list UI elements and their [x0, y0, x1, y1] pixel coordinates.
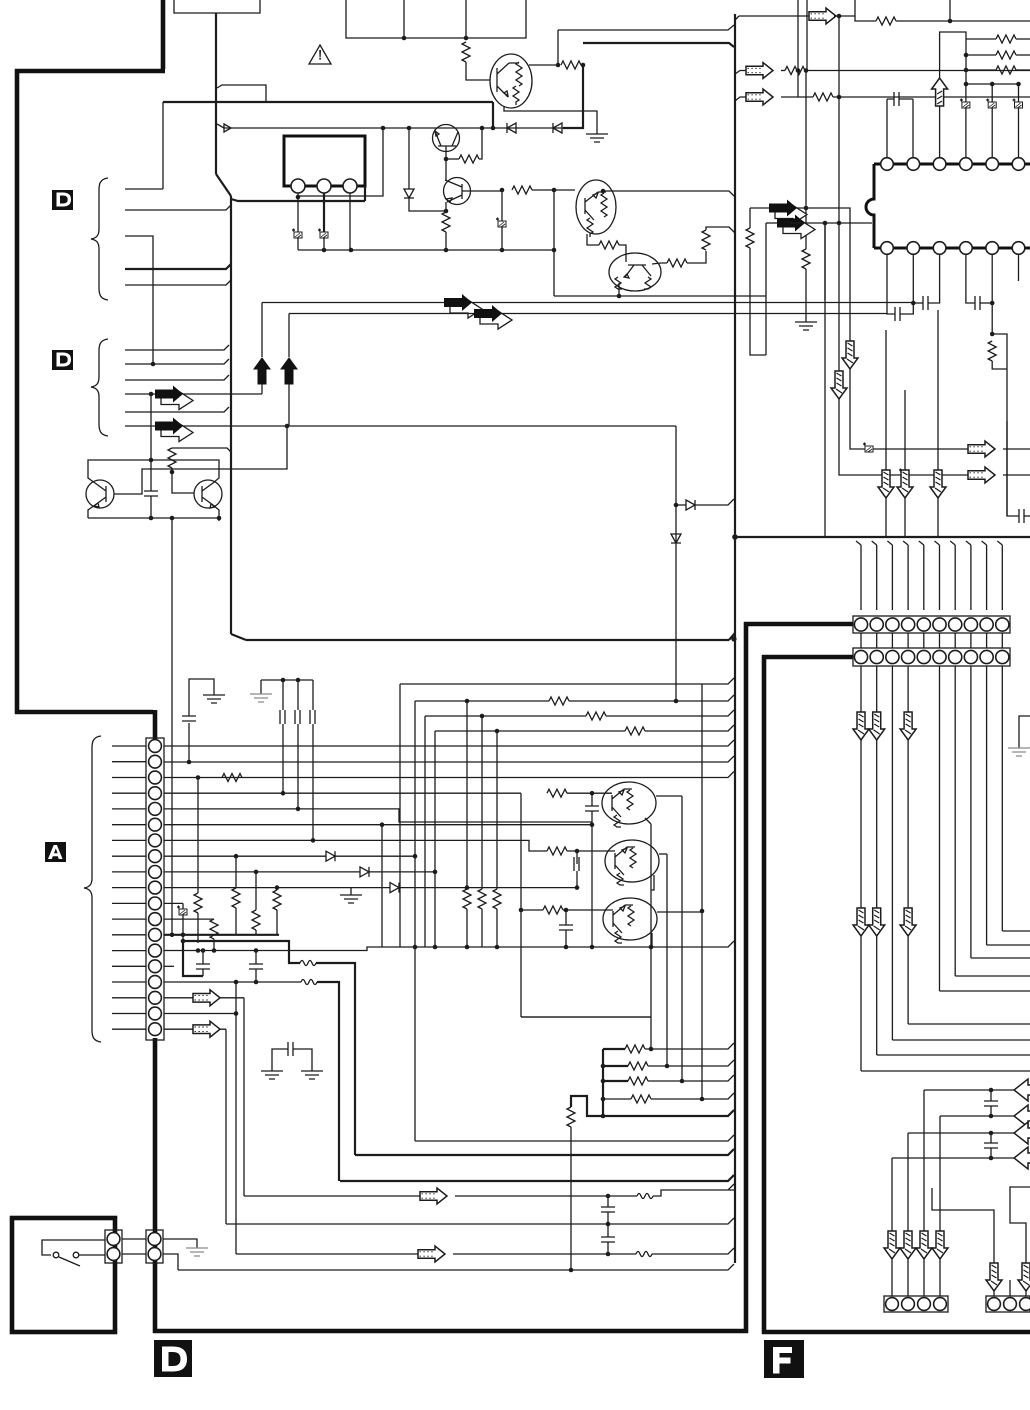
- wire x262 to arrow tip: [261, 303, 263, 358]
- connector S2 body: [146, 1230, 163, 1263]
- arrow up solid 1: [254, 358, 270, 384]
- node junction rail x351: [349, 248, 354, 253]
- wire y684 top: [400, 678, 734, 684]
- vertical x497 with resistor: [496, 731, 498, 889]
- node junction x497 y731: [495, 729, 500, 734]
- wire arrow to pin3: [939, 106, 941, 158]
- resistor R-e2: [442, 212, 450, 232]
- node junction x592 y825: [590, 822, 595, 827]
- bead pin5: [991, 84, 993, 102]
- vertical x283 cap: [282, 680, 284, 710]
- wire x592 continue: [591, 825, 593, 947]
- wire y30 to bus: [558, 25, 734, 30]
- wire resistor to base: [466, 62, 490, 80]
- resistor R-x198: [194, 893, 202, 913]
- coil y1254: [608, 1253, 636, 1255]
- wire S2 pin2 to y1270: [163, 1254, 178, 1270]
- wire x806 low: [805, 269, 807, 322]
- cap y1143: [990, 1133, 992, 1143]
- wire contact2 to pin: [79, 1254, 105, 1256]
- wire x287 down: [114, 426, 287, 494]
- arrow left outline y1090: [1014, 1079, 1030, 1101]
- module pin 1: [291, 179, 305, 193]
- node junction x651 y947: [649, 945, 654, 950]
- wire y1210 to conn F2: [932, 1188, 994, 1263]
- node junction x236 pin16: [234, 980, 239, 985]
- bead pin4: [965, 84, 967, 102]
- node junction x558: [556, 63, 561, 68]
- brace D1: [91, 178, 108, 300]
- wire corner y1040: [892, 1039, 1030, 1041]
- wire R-q4 up: [687, 251, 706, 263]
- wire p19 corner down: [225, 1029, 227, 1224]
- wire pin10 tail: [399, 887, 577, 889]
- arrow hatched up pin3: [932, 78, 948, 106]
- wire y1017 step: [521, 1016, 651, 1018]
- arrow left outline y1133: [1014, 1122, 1030, 1144]
- arrow wires: [886, 310, 938, 537]
- node junction bus/bottom: [731, 636, 736, 641]
- verticals to bottom connector: [892, 1090, 940, 1231]
- wire x198 down: [197, 778, 199, 894]
- wire module pin2 down: [323, 193, 325, 232]
- diode D-left2: [553, 123, 562, 133]
- caps top horizontal: [261, 680, 313, 694]
- wire Q2 base right: [462, 190, 502, 192]
- wire corner x415: [414, 701, 416, 1141]
- node junction x566 y910: [564, 908, 569, 913]
- node junction x466: [464, 36, 469, 41]
- wire x571 down: [570, 1127, 572, 1270]
- wire y97 resistor: [781, 96, 813, 98]
- node junction x203 rail: [201, 948, 206, 953]
- node junction x298 y680: [296, 678, 301, 683]
- node junction x583 y65: [581, 63, 586, 68]
- cap pin2-3: [913, 302, 923, 304]
- node junction x839 y223: [837, 221, 842, 226]
- wire corner y945: [987, 944, 1030, 946]
- node junction x446 y211: [444, 209, 449, 214]
- node junction x435 pin9: [433, 870, 438, 875]
- switch contact 1: [53, 1252, 59, 1258]
- wire pin7: [164, 840, 547, 851]
- node junction x298 pin5: [296, 807, 301, 812]
- IC bottom edge: [874, 247, 1030, 250]
- node junction rail x554: [552, 248, 557, 253]
- node junction x651 y1049: [649, 1047, 654, 1052]
- SECTION: top-left / region B boundary: [163, 0, 766, 642]
- strip2 pins: [854, 650, 867, 663]
- node junction x313 pin7: [311, 838, 316, 843]
- arrow left outline y1116: [1014, 1105, 1030, 1127]
- node junction x806 y208: [804, 206, 809, 211]
- IC top pins: [881, 158, 894, 171]
- wires arrows to connector: [892, 1259, 940, 1296]
- wire D2-4: [125, 393, 262, 395]
- resistor R-q4b: [702, 230, 710, 250]
- thick stub x183 down: [183, 941, 203, 976]
- capacitor C-m2 (polarized): [318, 229, 328, 239]
- coil y1197: [608, 1195, 637, 1197]
- node junction rail x324: [322, 248, 327, 253]
- vertical x577 cap: [576, 851, 578, 864]
- strip2 pin wires down: [861, 666, 1002, 1071]
- interstrip verticals: [861, 633, 1002, 648]
- node junction x283 pin4: [281, 791, 286, 796]
- wire Q-top emitter: [504, 107, 597, 134]
- arrow hatched down x850: [842, 341, 858, 369]
- wire corner x766 down: [765, 223, 767, 355]
- wire x554 down long: [553, 190, 555, 296]
- wire QL1 collector up: [88, 460, 151, 483]
- wire pin5: [164, 809, 592, 822]
- wire resistor up to diode line: [479, 128, 482, 159]
- strip1 pins: [854, 618, 867, 631]
- wire corner x435: [434, 731, 436, 947]
- resistor col x236 from p8: [234, 854, 239, 859]
- thick wire to x355: [316, 963, 355, 1155]
- resistor rows top right: r1: [966, 38, 996, 40]
- connector F1 body: [884, 1296, 948, 1312]
- wire resistor bottom to x1007: [992, 361, 1007, 369]
- wire y1155 thick: [355, 1149, 734, 1155]
- wire module pin1 down: [297, 193, 299, 232]
- wire x950 from top: [949, 0, 951, 21]
- ground caps-row: [250, 694, 272, 702]
- wire corner down x493: [492, 102, 494, 128]
- ground C-mid left: [261, 1071, 283, 1079]
- transistor QL2: [194, 480, 222, 508]
- wire corner x400: [399, 684, 401, 947]
- resistor R-x992: [988, 341, 996, 361]
- wire D1-4: [125, 264, 231, 269]
- wire up-arrow1 stem: [261, 384, 263, 394]
- wire diode line thick tail: [563, 65, 583, 128]
- node junction x382 pin6: [380, 822, 385, 827]
- node junction x992 y303: [990, 301, 995, 306]
- diode D-b2 down: [671, 534, 681, 543]
- arrow hatched down x839: [831, 371, 847, 399]
- transistor QA3: [603, 898, 657, 940]
- capacitor C-mid structure: [272, 1049, 312, 1071]
- wire D2-2: [125, 359, 229, 364]
- wire pin9: [164, 871, 360, 873]
- wire y1270: [178, 1264, 734, 1270]
- vertical x382: [381, 825, 383, 947]
- switch enclosure box: [12, 1218, 115, 1332]
- IC bottom pins: [881, 242, 894, 255]
- wire D1-3: [125, 236, 153, 364]
- resistor R-p3: [222, 774, 242, 782]
- label D (big, bottom): [154, 1340, 192, 1377]
- arrow hatched p17: [193, 990, 220, 1006]
- vertical x676 diode feed: [675, 426, 677, 701]
- wire x383 down to module: [298, 128, 383, 196]
- bead B-y475: [899, 469, 909, 479]
- wire QA1 collector: [656, 795, 682, 797]
- coil L2 on p16: [301, 980, 317, 985]
- node junction x577 pin10: [575, 885, 580, 890]
- wire pin15 stub: [164, 965, 174, 967]
- wire region-B bottom horizontal: [246, 639, 729, 641]
- vertical x839 from y97: [838, 97, 840, 371]
- wire vertical x839 top: [838, 16, 840, 97]
- wire D1-1: [125, 188, 163, 190]
- arrow hatched down F2a: [986, 1263, 1002, 1291]
- wire pin16: [164, 981, 301, 983]
- node junction x806 y70: [804, 68, 809, 73]
- cap x566: [565, 910, 567, 925]
- wire S2 pin1 to ground: [163, 1239, 197, 1248]
- wire x409 down to diode: [408, 128, 410, 189]
- wire x236 down: [235, 982, 237, 1254]
- node junction x415 pin8: [413, 854, 418, 859]
- label D (bracket 2): [52, 350, 73, 370]
- wire D1-1 riser: [162, 102, 164, 189]
- module pin 2: [317, 179, 331, 193]
- rail junction dots: [413, 945, 418, 950]
- node junction x608 y1197: [606, 1194, 611, 1199]
- pin stubs left: [112, 746, 146, 1029]
- wire p17 corner down: [243, 998, 245, 1196]
- wire long horizontal y102: [163, 101, 493, 103]
- region F left border: [762, 655, 767, 1334]
- wire x289 to arrow tip: [288, 314, 290, 358]
- module box (tuner): [284, 136, 365, 186]
- transistor Q1: [433, 125, 460, 152]
- wire y1181 thick: [340, 1175, 734, 1181]
- wire QA3 collector: [657, 911, 702, 913]
- wire y302 long: [262, 302, 913, 304]
- node junction x839 y16: [837, 14, 842, 19]
- module pin 3: [343, 179, 357, 193]
- wire R-x198 to thick node: [197, 913, 199, 943]
- vertical x313 cap: [312, 680, 314, 710]
- node junction x482 y716: [480, 714, 485, 719]
- wire Q3 emitter to R: [587, 234, 599, 245]
- arrow hatched y16: [809, 8, 836, 24]
- arrows hatched down bottom row: [884, 1231, 900, 1259]
- resistor R-collector: [561, 61, 581, 69]
- SECTION: bottom-left switch area: [42, 1230, 208, 1270]
- vertical x298 cap: [297, 680, 299, 710]
- node junction x467 y701: [465, 699, 470, 704]
- wire QL1 emitter down: [88, 505, 95, 518]
- arrow hatched y1254: [418, 1246, 445, 1262]
- wire pin9 tail: [369, 871, 435, 873]
- wire D2-6: [125, 425, 676, 427]
- wire pin13 thick: [164, 934, 234, 936]
- wire x558 riser: [557, 30, 559, 65]
- thick bar y935: [234, 934, 279, 936]
- arrows hatched down above strip: [878, 470, 894, 498]
- arrow solid y302: [444, 294, 482, 318]
- node junction x502: [500, 188, 505, 193]
- cap pin4-5: [975, 296, 980, 310]
- resistor R-q2c: [512, 186, 532, 194]
- diode D-b1: [676, 504, 686, 506]
- wire y449 tail: [1003, 448, 1030, 450]
- node junction x991 y1116: [989, 1114, 994, 1119]
- connector A pins: [149, 740, 162, 1036]
- wire QL2 collector riser: [151, 460, 219, 483]
- wire corner x750 down: [749, 208, 751, 228]
- node junction x219 y521: [217, 516, 222, 521]
- node junction x482: [480, 126, 485, 131]
- wire pin4: [164, 792, 521, 794]
- strip1 body: [853, 616, 1010, 633]
- node junction x172 y474: [170, 470, 175, 475]
- ground tap pin10: [350, 888, 352, 895]
- node junction rail x446: [444, 248, 449, 253]
- wire pin19: [164, 1028, 226, 1030]
- wire D1-5: [125, 280, 231, 285]
- wire y1224: [226, 1218, 734, 1224]
- wire y1197: [244, 1195, 420, 1197]
- vertical x825: [824, 223, 826, 300]
- wire y475 tail: [1003, 474, 1030, 476]
- wire pin2: [164, 756, 734, 762]
- wire R-q4b to bus: [706, 227, 735, 233]
- ground S2: [186, 1248, 208, 1256]
- wire Q4 bottom down: [554, 283, 766, 296]
- wire emitter left: [446, 158, 459, 160]
- cap y1101: [990, 1090, 992, 1101]
- wire y21 top: [855, 0, 876, 21]
- diode D-down: [404, 189, 414, 198]
- wire QA2 emitter down: [651, 875, 654, 890]
- wire arrowin y1158: [892, 1157, 1030, 1159]
- diode D-p8: [326, 851, 335, 861]
- capacitor C-m1 (polarized): [292, 229, 302, 239]
- transistor Q3: [576, 180, 616, 234]
- left vertical x603: [602, 1049, 604, 1116]
- below-IC pin6 vertical: [1018, 254, 1020, 281]
- resistor R-x750: [746, 228, 754, 248]
- cap x592: [591, 793, 593, 806]
- wire y449 long: [850, 341, 976, 449]
- connector S2 pins: [148, 1233, 161, 1246]
- below-IC pin1 wire: [887, 254, 895, 314]
- wire Q2 collector from Q1: [445, 159, 447, 180]
- node junction x702 y911: [700, 909, 705, 914]
- wire cap to bottom rail: [150, 496, 152, 518]
- wire Q2 emitter: [445, 202, 447, 211]
- arrow solid D2-4: [155, 386, 193, 410]
- label F (big, bottom): [764, 1340, 804, 1378]
- wire pin14 rail: [164, 941, 734, 951]
- IC body outline: [866, 164, 874, 248]
- wire R-lt to base: [172, 468, 194, 493]
- node junction x173 rail: [170, 516, 175, 521]
- node junction x577 y851: [575, 849, 580, 854]
- connector F2 body: [986, 1296, 1030, 1312]
- wire y731: [435, 730, 625, 732]
- brace A: [84, 736, 101, 1042]
- wire pin18: [164, 1013, 236, 1015]
- wire thick top feed: [583, 43, 734, 47]
- ground C-p2: [203, 695, 225, 703]
- wire arrowin y1090: [924, 1089, 1030, 1091]
- cap below pin1-2: [895, 307, 900, 321]
- wire y701: [415, 700, 549, 702]
- wire bend 45: [216, 174, 231, 196]
- SECTION: right strips: [853, 310, 1010, 666]
- vertical x482 with resistor: [481, 716, 483, 889]
- wire QL1 bottom rail: [88, 517, 219, 519]
- capacitor C-lt: [144, 491, 158, 496]
- resistor r2: [966, 54, 996, 56]
- node junction x992 y334: [990, 332, 995, 337]
- wire vertical x798: [797, 0, 799, 97]
- ground Q-top emitter: [586, 134, 608, 142]
- resistor R-step: [567, 1107, 575, 1127]
- wire diode line y128: [224, 127, 563, 129]
- node junction x151 y460: [149, 458, 154, 463]
- diode D-p10: [390, 883, 399, 893]
- node junction x608 y1254: [606, 1252, 611, 1257]
- wire y70 resistor: [781, 70, 785, 72]
- transistor QA1: [602, 782, 656, 824]
- SECTION: mid mesh verticals and transistors: [170, 426, 734, 1141]
- thick L wire x183-x289: [183, 941, 300, 963]
- node junction rail x502: [500, 248, 505, 253]
- wire cap to rail: [501, 227, 503, 250]
- wire y448: [172, 448, 231, 452]
- node junction x409: [407, 126, 412, 131]
- node junction x493: [491, 126, 496, 131]
- wire pin1 top cap loop: [887, 99, 894, 158]
- wire y1223 to conn F2: [1010, 1187, 1030, 1263]
- node junctions x603: [601, 1064, 606, 1069]
- wire into QA3: [521, 909, 613, 911]
- wire pin1 cap to rail: [297, 238, 299, 250]
- ground-region D bottom border: [153, 1329, 748, 1334]
- vertical x1007 y421-537: [1006, 421, 1008, 516]
- wire corner x425: [424, 716, 426, 947]
- wire vertical x466: [465, 0, 467, 38]
- wire pin2 cap to rail: [323, 238, 325, 250]
- wire vertical x404: [403, 0, 405, 38]
- wire QA3 emitter: [651, 933, 653, 947]
- transistor Q2: [444, 178, 471, 205]
- node junction x189 pin2: [187, 760, 192, 765]
- node junction x603 y1116: [601, 1114, 606, 1119]
- wire pin17: [164, 997, 244, 999]
- node junction x404: [402, 36, 407, 41]
- node junction x702 y1099: [700, 1097, 705, 1102]
- node junction x682 y1081: [680, 1079, 685, 1084]
- wire y223: [790, 222, 872, 224]
- node junction x383: [381, 126, 386, 131]
- wire y716: [425, 715, 586, 717]
- node junction bus y537: [732, 534, 738, 540]
- resistor R-q3e: [599, 241, 619, 249]
- node small arrowhead: [224, 124, 231, 132]
- IC top edge: [874, 163, 1030, 166]
- SECTION: D brackets left: [91, 102, 913, 442]
- wires S1-S2: [122, 1239, 146, 1254]
- node junction x950 y21: [948, 19, 953, 24]
- wire pin1: [164, 740, 734, 746]
- resistor rows: row1: [603, 1048, 625, 1050]
- ground-region D left border top vertical: [161, 0, 166, 69]
- node junction module pin1: [296, 195, 301, 200]
- wire module pin3 down: [349, 193, 351, 250]
- wire D2-5: [125, 407, 229, 412]
- node junction x256 pin16: [254, 980, 259, 985]
- wire region-B left vertical: [230, 196, 232, 634]
